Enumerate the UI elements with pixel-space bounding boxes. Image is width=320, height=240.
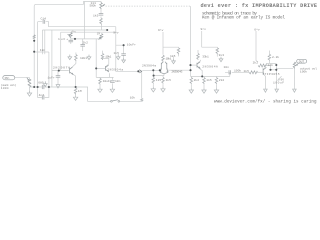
svg-text:12k: 12k	[268, 63, 274, 67]
svg-text:1k5: 1k5	[156, 78, 162, 82]
svg-text:2k2: 2k2	[194, 78, 200, 82]
svg-text:10uF+: 10uF+	[127, 44, 136, 47]
svg-text:1uF+: 1uF+	[48, 76, 55, 79]
svg-text:4^v: 4^v	[71, 30, 76, 34]
svg-text:2k2: 2k2	[219, 78, 225, 82]
svg-text:2.2k: 2.2k	[272, 55, 279, 59]
svg-text:9V: 9V	[281, 79, 285, 82]
svg-text:2N3904G: 2N3904G	[171, 71, 182, 74]
svg-text:OUT: OUT	[299, 61, 305, 64]
svg-text:100uF: 100uF	[273, 81, 284, 84]
svg-text:100k: 100k	[234, 69, 241, 73]
svg-text:10n: 10n	[115, 80, 121, 83]
svg-text:10k: 10k	[130, 96, 136, 100]
svg-text:100k: 100k	[300, 70, 307, 74]
svg-text:9^v: 9^v	[158, 28, 164, 32]
svg-text:9x3: 9x3	[219, 54, 225, 57]
svg-text:1k5: 1k5	[244, 69, 250, 73]
svg-text:1k5: 1k5	[93, 14, 99, 18]
svg-text:Ken @ Infanem of an early IS m: Ken @ Infanem of an early IS model	[202, 16, 285, 21]
svg-text:33k1: 33k1	[202, 55, 209, 59]
svg-text:2N3904A: 2N3904A	[202, 65, 218, 68]
svg-text:devi ever : fx IMPROBABILITY D: devi ever : fx IMPROBABILITY DRIVE	[201, 3, 318, 9]
svg-text:1k5: 1k5	[206, 78, 212, 82]
svg-text:1k5: 1k5	[166, 78, 172, 82]
svg-text:2N3904a: 2N3904a	[107, 68, 123, 71]
svg-text:1uF+: 1uF+	[58, 38, 68, 41]
svg-text:1M: 1M	[78, 90, 82, 93]
svg-text:10n: 10n	[224, 66, 230, 69]
svg-text:9^v: 9^v	[201, 27, 207, 31]
svg-text:10k1: 10k1	[80, 56, 87, 60]
svg-text:6^v: 6^v	[254, 27, 260, 31]
svg-text:18n: 18n	[40, 49, 46, 52]
svg-text:2N2907A: 2N2907A	[53, 66, 70, 70]
svg-text:2k2: 2k2	[253, 60, 259, 64]
svg-text:100k: 100k	[1, 86, 9, 90]
svg-text:2k2: 2k2	[83, 41, 89, 45]
svg-text:www.deviever.com/fx/ - sharing: www.deviever.com/fx/ - sharing is caring	[214, 99, 317, 104]
svg-text:9^v: 9^v	[113, 30, 119, 34]
svg-text:4n7: 4n7	[39, 94, 45, 97]
svg-text:680: 680	[38, 82, 44, 85]
svg-text:1M: 1M	[97, 32, 101, 35]
svg-text:TIP3055: TIP3055	[265, 73, 280, 76]
svg-text:1k5: 1k5	[114, 51, 120, 55]
svg-text:10k1: 10k1	[105, 55, 111, 59]
svg-text:IN>: IN>	[4, 76, 10, 80]
svg-text:1k5: 1k5	[170, 54, 176, 58]
svg-text:500k: 500k	[90, 4, 97, 8]
svg-text:2N3904m: 2N3904m	[142, 64, 156, 67]
